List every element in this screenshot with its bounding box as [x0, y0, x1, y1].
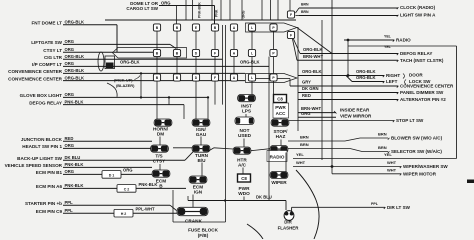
- svg-text:DIR: DIR: [284, 220, 292, 225]
- svg-text:RED: RED: [65, 136, 74, 141]
- svg-text:DEFOG RELAY: DEFOG RELAY: [29, 100, 62, 105]
- svg-text:WHT: WHT: [387, 160, 397, 165]
- svg-text:PANEL DIMMER SW: PANEL DIMMER SW: [400, 90, 444, 95]
- svg-text:WDO: WDO: [238, 191, 250, 196]
- svg-text:PNK-BLK: PNK-BLK: [65, 162, 84, 167]
- svg-text:PNK-BLK: PNK-BLK: [65, 183, 84, 188]
- svg-text:PPL: PPL: [65, 208, 74, 213]
- svg-text:ORG: ORG: [65, 92, 75, 97]
- svg-text:DM: DM: [157, 132, 164, 137]
- svg-text:ORG-BLK: ORG-BLK: [302, 69, 322, 74]
- svg-text:GLOVE BOX LIGHT: GLOVE BOX LIGHT: [20, 93, 63, 98]
- svg-text:RADIO: RADIO: [270, 155, 285, 160]
- svg-text:WIPER/WASHER SW: WIPER/WASHER SW: [403, 164, 448, 169]
- svg-text:BRN: BRN: [301, 10, 309, 14]
- svg-text:FNT DOME LT: FNT DOME LT: [31, 21, 62, 26]
- svg-text:DEFOG RELAY: DEFOG RELAY: [400, 51, 432, 56]
- svg-text:BACK-UP LIGHT SW: BACK-UP LIGHT SW: [17, 156, 62, 161]
- svg-text:BRN-WHT: BRN-WHT: [303, 54, 323, 59]
- svg-text:ORG: ORG: [301, 111, 311, 116]
- svg-text:L: L: [251, 52, 253, 56]
- svg-text:ORG-BLK: ORG-BLK: [65, 54, 85, 59]
- svg-text:WIPER: WIPER: [271, 180, 287, 185]
- svg-text:L: L: [251, 76, 253, 80]
- svg-text:ORG-BLK: ORG-BLK: [65, 68, 85, 73]
- svg-text:ORG: ORG: [65, 169, 75, 174]
- svg-text:ORG-BLK: ORG-BLK: [240, 60, 260, 65]
- svg-text:ORG: ORG: [161, 0, 171, 5]
- svg-text:CLOCK (RADIO): CLOCK (RADIO): [400, 5, 436, 10]
- svg-text:F: F: [290, 34, 292, 38]
- svg-text:PNK-BLK: PNK-BLK: [198, 2, 202, 18]
- svg-text:WIPER MOTOR: WIPER MOTOR: [403, 171, 437, 176]
- svg-text:ORG-BLK: ORG-BLK: [356, 69, 376, 74]
- svg-text:CTSY: CTSY: [153, 159, 166, 164]
- svg-text:BRN: BRN: [301, 3, 309, 7]
- svg-text:ORG: ORG: [65, 39, 75, 44]
- svg-text:HAZ: HAZ: [276, 134, 286, 139]
- svg-text:LEFT: LEFT: [386, 79, 398, 84]
- svg-text:CONVENIENCE CENTER: CONVENIENCE CENTER: [400, 84, 454, 89]
- svg-text:A/C: A/C: [238, 163, 247, 168]
- svg-text:CONVENIENCE CENTER: CONVENIENCE CENTER: [8, 69, 63, 74]
- svg-text:F: F: [290, 13, 292, 17]
- svg-text:FUSE BLOCK: FUSE BLOCK: [188, 228, 219, 233]
- svg-text:YEL: YEL: [296, 152, 304, 157]
- svg-text:CRANK: CRANK: [185, 219, 203, 224]
- svg-text:ORG: ORG: [65, 47, 75, 52]
- svg-text:PNK: PNK: [215, 9, 219, 17]
- svg-text:GRY: GRY: [302, 80, 311, 85]
- svg-text:CIG LTR: CIG LTR: [44, 55, 63, 60]
- svg-text:F: F: [214, 76, 216, 80]
- svg-text:PPL: PPL: [65, 200, 74, 205]
- svg-text:RADIO: RADIO: [396, 38, 411, 43]
- svg-text:ECM PIN A6: ECM PIN A6: [36, 184, 63, 189]
- svg-text:PNK-BLK: PNK-BLK: [139, 182, 158, 187]
- svg-text:LIGHT SW PIN A: LIGHT SW PIN A: [400, 13, 436, 18]
- svg-text:YEL: YEL: [384, 152, 392, 157]
- svg-text:DOOR: DOOR: [409, 73, 423, 78]
- svg-text:IGN: IGN: [194, 190, 203, 195]
- svg-text:D 1: D 1: [109, 173, 115, 177]
- svg-text:STARTER PIN +b: STARTER PIN +b: [25, 201, 62, 206]
- svg-text:CTSY LT: CTSY LT: [43, 48, 62, 53]
- svg-text:ACC: ACC: [276, 111, 286, 116]
- svg-text:YEL: YEL: [384, 45, 392, 49]
- svg-text:PPL: PPL: [371, 202, 379, 206]
- svg-text:WHT: WHT: [387, 167, 397, 172]
- svg-text:DIR LT SW: DIR LT SW: [387, 205, 411, 210]
- svg-text:ORG: ORG: [242, 10, 246, 18]
- svg-text:PWR: PWR: [275, 105, 286, 110]
- svg-text:ORG-BLK: ORG-BLK: [356, 75, 376, 80]
- svg-text:HEADLT SW PIN 1: HEADLT SW PIN 1: [22, 144, 62, 149]
- svg-text:(PICK-UP): (PICK-UP): [114, 78, 133, 83]
- svg-text:(BLAZER): (BLAZER): [116, 83, 135, 88]
- svg-text:F: F: [214, 52, 216, 56]
- svg-text:ORG: ORG: [65, 61, 75, 66]
- svg-text:ORG-BLK: ORG-BLK: [65, 75, 85, 80]
- svg-text:DK BLU: DK BLU: [65, 155, 81, 160]
- svg-text:ORG: ORG: [123, 168, 133, 173]
- svg-text:RIGHT: RIGHT: [386, 73, 400, 78]
- svg-text:TACH (INST CLSTR): TACH (INST CLSTR): [400, 58, 444, 63]
- svg-text:B/U: B/U: [197, 158, 206, 163]
- svg-text:C8: C8: [241, 176, 247, 181]
- svg-text:ORG-BLK: ORG-BLK: [65, 20, 85, 25]
- svg-text:PPL-WHT: PPL-WHT: [136, 207, 156, 212]
- svg-text:LIFTGATE SW: LIFTGATE SW: [31, 40, 62, 45]
- svg-text:VIEW MIRROR: VIEW MIRROR: [340, 113, 372, 118]
- svg-text:C 2: C 2: [124, 187, 130, 191]
- svg-text:DK BLU: DK BLU: [256, 194, 272, 199]
- svg-text:STOP LT SW: STOP LT SW: [396, 118, 424, 123]
- svg-text:H 2: H 2: [121, 212, 127, 216]
- svg-text:BRN: BRN: [300, 135, 309, 140]
- svg-text:JUNCTION BLOCK: JUNCTION BLOCK: [21, 137, 63, 142]
- svg-text:C8: C8: [277, 97, 283, 102]
- svg-text:I/P COMPT LT: I/P COMPT LT: [32, 62, 62, 67]
- svg-text:BLOWER SW (W/O A/C): BLOWER SW (W/O A/C): [391, 136, 443, 141]
- svg-text:ALTERNATOR PIN #2: ALTERNATOR PIN #2: [400, 97, 446, 102]
- svg-text:SELECTOR SW (W/A/C): SELECTOR SW (W/A/C): [391, 149, 442, 154]
- svg-text:CARGO LT SW: CARGO LT SW: [126, 6, 158, 11]
- svg-text:DK GRN: DK GRN: [302, 86, 319, 91]
- svg-text:YEL: YEL: [384, 34, 392, 38]
- svg-text:WHT: WHT: [296, 160, 306, 165]
- svg-text:ORG-BLK: ORG-BLK: [120, 60, 140, 65]
- svg-text:BRN: BRN: [378, 132, 387, 137]
- svg-text:ECM PIN B1: ECM PIN B1: [36, 170, 63, 175]
- svg-text:CONVENIENCE CENTER: CONVENIENCE CENTER: [8, 76, 63, 81]
- svg-text:BRN: BRN: [378, 145, 387, 150]
- svg-text:VEHICLE SPEED SENSOR: VEHICLE SPEED SENSOR: [5, 163, 63, 168]
- svg-text:RED: RED: [302, 93, 311, 98]
- svg-text:FLASHER: FLASHER: [278, 226, 300, 231]
- svg-text:(F/B): (F/B): [198, 233, 209, 238]
- svg-text:BRN: BRN: [300, 142, 309, 147]
- svg-text:L: L: [251, 26, 253, 30]
- svg-text:ORG-BLK: ORG-BLK: [303, 47, 323, 52]
- svg-text:USED: USED: [238, 133, 252, 138]
- svg-text:ORG: ORG: [65, 143, 75, 148]
- svg-text:GAU: GAU: [196, 132, 207, 137]
- svg-text:INSIDE REAR: INSIDE REAR: [340, 107, 370, 112]
- svg-text:LPS: LPS: [242, 109, 251, 114]
- svg-text:ECM PIN C9: ECM PIN C9: [36, 209, 63, 214]
- svg-text:PNK-BLK: PNK-BLK: [65, 99, 84, 104]
